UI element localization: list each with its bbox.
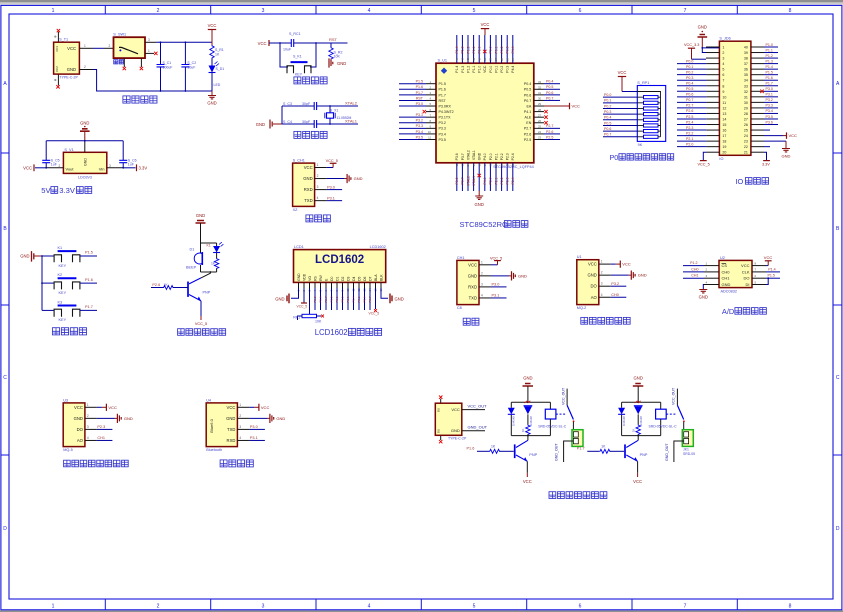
net P1.6 key <box>80 278 97 283</box>
svg-text:Vout: Vout <box>66 167 75 172</box>
pin 3 net P3.0 of S_CH1 <box>315 185 343 190</box>
svg-text:19: 19 <box>494 163 498 167</box>
caption 蓝牙模块 <box>220 460 253 467</box>
svg-text:S_X1: S_X1 <box>330 109 338 113</box>
svg-text:3: 3 <box>262 604 265 610</box>
svg-text:P0.1: P0.1 <box>604 99 611 103</box>
caption 晶振电路 <box>294 131 327 138</box>
buzzer D1 BEEP <box>186 243 202 272</box>
svg-text:11: 11 <box>428 136 431 140</box>
svg-text:P2.4: P2.4 <box>511 177 515 184</box>
svg-text:10uF: 10uF <box>283 48 292 52</box>
svg-text:P3.1: P3.1 <box>250 436 258 440</box>
caption LCD1602显示模块 <box>315 328 382 337</box>
svg-text:VCC: VCC <box>622 262 631 267</box>
net P0.1 lcd <box>335 288 339 310</box>
svg-text:P0.6: P0.6 <box>546 91 553 95</box>
svg-text:1: 1 <box>722 46 724 50</box>
svg-text:P1.3: P1.3 <box>461 66 465 73</box>
svg-text:15: 15 <box>472 163 476 167</box>
svg-text:P2.5: P2.5 <box>524 138 531 142</box>
svg-text:1K: 1K <box>215 53 220 57</box>
svg-text:P2.7: P2.7 <box>324 296 328 302</box>
svg-text:S_SW1: S_SW1 <box>113 32 126 36</box>
net P1.5 key <box>80 251 97 256</box>
svg-text:27: 27 <box>744 117 748 121</box>
svg-text:LCD1602: LCD1602 <box>315 254 364 266</box>
MCU bottom pin 15 <box>472 163 476 191</box>
svg-text:38: 38 <box>744 57 748 61</box>
net P0.3 pullup <box>603 110 637 114</box>
svg-text:K1: K1 <box>207 243 211 247</box>
svg-text:P0.3: P0.3 <box>506 46 510 53</box>
svg-text:P3.6: P3.6 <box>455 177 459 184</box>
svg-text:P1.6: P1.6 <box>416 85 423 89</box>
svg-text:LDO3V3: LDO3V3 <box>78 176 92 180</box>
svg-text:CS: CS <box>722 263 728 268</box>
svg-text:23: 23 <box>538 136 542 140</box>
svg-text:P0.0: P0.0 <box>330 296 334 302</box>
svg-text:GND: GND <box>20 253 29 258</box>
svg-text:P1.7: P1.7 <box>766 82 773 86</box>
svg-text:P1.5: P1.5 <box>85 251 93 255</box>
svg-text:2: 2 <box>59 164 61 168</box>
svg-text:DO: DO <box>591 284 598 289</box>
svg-text:MQ-2: MQ-2 <box>577 306 587 310</box>
power VCC_3.3 io <box>684 43 719 59</box>
svg-text:8: 8 <box>789 8 792 14</box>
caption 复位电路 <box>294 77 327 84</box>
transistor PNP alarm <box>188 272 211 301</box>
svg-text:23: 23 <box>744 140 748 144</box>
svg-text:DI: DI <box>746 282 750 287</box>
svg-text:VCC: VCC <box>451 407 460 412</box>
svg-text:P0.2: P0.2 <box>686 70 693 74</box>
svg-text:D3: D3 <box>346 276 350 280</box>
power GND ldo <box>80 121 90 141</box>
svg-text:29: 29 <box>538 102 542 106</box>
caption 下载口 <box>306 215 330 222</box>
svg-text:3: 3 <box>148 38 150 42</box>
MCU right pin 30 <box>534 96 560 100</box>
MCU bottom pin 17 <box>483 163 487 191</box>
svg-text:P0.5: P0.5 <box>604 121 611 125</box>
MCU right pin 27 <box>534 113 548 119</box>
svg-text:AO: AO <box>77 438 84 443</box>
svg-text:VCC_5: VCC_5 <box>297 304 308 308</box>
svg-text:D: D <box>3 526 7 532</box>
connector S_T1 TYPE-C-2P <box>54 29 80 89</box>
pin 2 GND of U3 <box>85 414 133 423</box>
net P0.1 io <box>677 65 719 69</box>
svg-text:4: 4 <box>601 293 603 297</box>
svg-text:U2: U2 <box>720 256 725 260</box>
svg-text:7: 7 <box>684 604 687 610</box>
net P2.7 io <box>677 104 719 108</box>
svg-text:S_RP1: S_RP1 <box>637 81 649 85</box>
svg-text:1: 1 <box>601 260 603 264</box>
svg-text:P0.6: P0.6 <box>686 93 693 97</box>
net P1.7 key <box>80 305 97 310</box>
net P0.0 io <box>677 59 719 63</box>
svg-text:5: 5 <box>722 68 724 72</box>
pin 3 net P3.0 of CH1 <box>479 282 507 287</box>
svg-text:P1.5: P1.5 <box>766 70 773 74</box>
svg-text:RP1: RP1 <box>293 316 300 320</box>
svg-text:16: 16 <box>477 163 481 167</box>
svg-text:VCC: VCC <box>468 262 477 267</box>
svg-text:GND: GND <box>124 416 133 421</box>
power GND reset <box>329 58 346 67</box>
net P0.6 pullup <box>603 127 637 131</box>
svg-text:30: 30 <box>538 97 542 101</box>
svg-text:GND: GND <box>276 416 285 421</box>
svg-text:CC2: CC2 <box>55 66 59 72</box>
caption 烟雾检测模块 <box>581 317 630 324</box>
power GND relay P1.6 <box>523 376 534 403</box>
svg-text:4: 4 <box>87 436 89 440</box>
svg-text:4: 4 <box>317 196 319 200</box>
io right pin 24 <box>751 132 797 138</box>
svg-text:CH1: CH1 <box>722 276 731 281</box>
svg-text:P3.0: P3.0 <box>416 102 423 106</box>
svg-text:CC1: CC1 <box>55 45 59 51</box>
io right pin 28 <box>751 109 778 113</box>
svg-text:CH1: CH1 <box>97 436 105 440</box>
power VCC relay emitter <box>633 461 642 484</box>
power 3.3V ldo out <box>107 164 148 171</box>
svg-text:SRD-05: SRD-05 <box>683 452 695 456</box>
svg-text:D4: D4 <box>352 276 356 280</box>
svg-text:JK1: JK1 <box>683 448 689 452</box>
MCU top pin 40 <box>477 35 481 63</box>
net P0.4 lcd <box>352 288 356 310</box>
svg-text:LCD1602: LCD1602 <box>315 328 348 337</box>
svg-text:P3.4: P3.4 <box>766 109 773 113</box>
wire key rail <box>41 255 43 310</box>
svg-text:D1: D1 <box>190 248 195 252</box>
relay switch contact <box>556 387 575 422</box>
svg-text:P3.5: P3.5 <box>416 135 423 139</box>
svg-text:P0.0: P0.0 <box>604 93 611 97</box>
svg-text:P2.7: P2.7 <box>546 124 553 128</box>
svg-text:SRD-05VDC-SL-C: SRD-05VDC-SL-C <box>649 424 678 428</box>
svg-text:P3.1TX: P3.1TX <box>439 116 452 120</box>
svg-text:29: 29 <box>744 106 748 110</box>
svg-text:P3.3: P3.3 <box>766 104 773 108</box>
MCU bottom pin 14 <box>466 163 470 191</box>
svg-text:P2.3: P2.3 <box>506 177 510 184</box>
svg-text:S_R1: S_R1 <box>215 48 224 52</box>
io right pin 37 <box>751 59 778 63</box>
svg-text:P0.3: P0.3 <box>604 110 611 114</box>
svg-text:VCC_5: VCC_5 <box>490 256 502 260</box>
svg-text:BLK: BLK <box>379 274 383 281</box>
svg-text:GND: GND <box>782 154 791 159</box>
svg-text:4: 4 <box>481 293 483 297</box>
svg-text:25: 25 <box>744 129 748 133</box>
svg-text:3: 3 <box>239 425 241 429</box>
svg-text:GND: GND <box>634 376 643 381</box>
net P1.4 adc clk pin7 <box>752 267 780 272</box>
svg-text:S_CH1: S_CH1 <box>293 159 305 163</box>
svg-text:39: 39 <box>744 51 748 55</box>
svg-text:P0.6: P0.6 <box>604 127 611 131</box>
svg-text:2: 2 <box>722 51 724 55</box>
svg-text:34: 34 <box>511 57 515 61</box>
svg-text:P2.2: P2.2 <box>686 131 693 135</box>
MCU bottom pin 21 <box>505 163 509 191</box>
svg-text:P4.3INT2: P4.3INT2 <box>439 110 454 114</box>
svg-text:P4.0: P4.0 <box>483 153 487 160</box>
io right pin 31 <box>751 93 778 97</box>
svg-text:S_T1: S_T1 <box>59 38 68 42</box>
svg-text:GND: GND <box>468 273 477 278</box>
svg-text:P2.6: P2.6 <box>546 130 553 134</box>
svg-text:P0.6: P0.6 <box>524 93 531 97</box>
svg-text:P0.3: P0.3 <box>346 296 350 302</box>
svg-text:P4.1: P4.1 <box>524 110 531 114</box>
svg-text:P1.2: P1.2 <box>690 261 697 265</box>
svg-text:9K: 9K <box>638 143 643 147</box>
svg-text:GND: GND <box>638 273 647 278</box>
diode 1N4148 flyback <box>618 402 626 435</box>
relay switch contact <box>666 387 685 422</box>
svg-text:10K: 10K <box>315 320 322 324</box>
svg-text:Blue6.0: Blue6.0 <box>209 418 214 432</box>
svg-text:1K: 1K <box>601 445 606 449</box>
svg-text:P4.4: P4.4 <box>511 46 515 53</box>
svg-text:GND: GND <box>207 101 216 106</box>
io right pin 33 <box>751 82 778 86</box>
svg-text:P2.6: P2.6 <box>152 283 160 287</box>
svg-text:24: 24 <box>538 130 542 134</box>
svg-text:P0.0: P0.0 <box>489 66 493 73</box>
svg-text:P1.4: P1.4 <box>455 66 459 73</box>
svg-text:CH0: CH0 <box>691 267 698 271</box>
svg-text:P3.2: P3.2 <box>439 121 446 125</box>
net P0.6 lcd <box>363 288 367 310</box>
svg-text:MQ-5: MQ-5 <box>63 448 72 452</box>
svg-text:30pF: 30pF <box>302 120 311 124</box>
power VCC_5 io pin20 <box>698 152 720 166</box>
svg-text:GND: GND <box>226 416 235 421</box>
svg-text:P0.1: P0.1 <box>335 296 339 302</box>
power VCC relay emitter <box>523 461 532 484</box>
pin 1 VCC of S_CH1 <box>315 159 338 168</box>
svg-text:P2.4: P2.4 <box>686 120 693 124</box>
io right pin 23 <box>751 141 791 158</box>
svg-text:XTAL1: XTAL1 <box>472 176 476 186</box>
svg-text:GND: GND <box>303 176 312 181</box>
svg-text:S_C4: S_C4 <box>283 120 292 124</box>
MCU left pin 10 <box>399 130 436 134</box>
svg-text:P2.2: P2.2 <box>500 177 504 184</box>
svg-text:P0.2: P0.2 <box>604 104 611 108</box>
power GND lcd left <box>275 288 298 303</box>
svg-text:S_RC1: S_RC1 <box>289 32 301 36</box>
svg-text:VCC: VCC <box>67 46 76 51</box>
svg-text:CLK: CLK <box>742 269 750 274</box>
svg-text:P2.0: P2.0 <box>489 153 493 160</box>
svg-text:22: 22 <box>744 145 748 149</box>
svg-text:44: 44 <box>455 57 459 61</box>
svg-text:VCC: VCC <box>208 23 217 28</box>
svg-text:10: 10 <box>428 130 432 134</box>
svg-text:25: 25 <box>538 125 542 129</box>
svg-text:BLA: BLA <box>374 274 378 281</box>
MCU top pin 35 <box>505 35 509 63</box>
LCD pin 12 <box>357 282 361 291</box>
power GND <box>207 91 216 106</box>
LCD pin 16 <box>379 282 383 291</box>
svg-text:P0.7: P0.7 <box>524 99 531 103</box>
svg-text:6: 6 <box>579 8 582 14</box>
capacitor S_C6 1uF <box>119 141 136 168</box>
diode LED relay <box>524 401 533 426</box>
svg-text:VO: VO <box>308 276 312 281</box>
svg-text:P0.1: P0.1 <box>494 46 498 53</box>
svg-text:8: 8 <box>789 604 792 610</box>
svg-text:RST: RST <box>329 37 338 42</box>
svg-text:GND: GND <box>337 61 346 66</box>
MCU top pin 36 <box>500 35 504 63</box>
caption 按键电路 <box>52 328 86 335</box>
svg-text:VCC_OUT: VCC_OUT <box>561 387 565 405</box>
MCU right pin 26 <box>534 119 548 125</box>
svg-text:28: 28 <box>744 112 748 116</box>
wire T1 gnd rail <box>79 65 212 92</box>
crystal S_X1 11.0592M <box>325 105 352 125</box>
svg-text:DO: DO <box>744 276 750 281</box>
svg-text:P1.7: P1.7 <box>439 93 446 97</box>
svg-text:C8: C8 <box>457 306 462 310</box>
svg-text:Bluetooth: Bluetooth <box>206 448 222 452</box>
MCU bottom pin 16 <box>477 163 481 191</box>
svg-text:P3.0: P3.0 <box>492 283 500 287</box>
svg-text:38: 38 <box>489 57 493 61</box>
wire T1 pin1 to SW1 <box>79 44 113 49</box>
wire relay gnd_out <box>555 441 574 462</box>
svg-text:GND: GND <box>74 416 83 421</box>
net P0.2 lcd <box>341 288 345 310</box>
MCU left pin 3 <box>399 91 436 95</box>
caption 电源电路 <box>123 96 157 103</box>
svg-text:TXD: TXD <box>227 427 235 432</box>
MCU left pin 11 <box>399 135 436 139</box>
svg-text:P1.7: P1.7 <box>85 305 93 309</box>
svg-text:3.3V: 3.3V <box>762 162 770 166</box>
svg-text:VCC: VCC <box>523 479 532 484</box>
svg-text:P3.7: P3.7 <box>461 177 465 184</box>
pin 3 net P3.0 of U4 <box>237 425 265 430</box>
svg-text:34: 34 <box>744 79 748 83</box>
power VCC MCU top <box>481 22 490 35</box>
net P0.4 pullup <box>603 116 637 120</box>
ADC U2 ADC0832 <box>719 256 752 294</box>
net P2.5 io <box>677 115 719 119</box>
MCU top pin 41 <box>472 35 476 63</box>
svg-text:14: 14 <box>722 117 726 121</box>
module U1 MQ-2 <box>577 255 599 310</box>
svg-text:CH1: CH1 <box>457 256 465 260</box>
svg-text:12: 12 <box>455 163 459 167</box>
io right pin 32 <box>751 87 778 93</box>
svg-text:VCC: VCC <box>483 65 487 73</box>
pin 4 net CH0 of U1 <box>599 293 627 298</box>
pin 2 GND of S_CH1 <box>315 174 363 183</box>
svg-text:P3.1: P3.1 <box>766 93 773 97</box>
svg-text:4: 4 <box>239 436 241 440</box>
svg-text:DO: DO <box>77 427 84 432</box>
svg-text:P2.2: P2.2 <box>500 153 504 160</box>
svg-text:18: 18 <box>722 140 726 144</box>
module U3 MQ-5 <box>63 398 85 452</box>
net P0.7 pullup <box>603 133 637 137</box>
svg-text:3: 3 <box>317 185 319 189</box>
svg-text:RS: RS <box>313 275 317 280</box>
net GND_OUT source <box>462 424 488 430</box>
power VCC reset <box>258 40 280 46</box>
LED S_D1 <box>209 62 225 92</box>
svg-text:PNP: PNP <box>203 291 211 295</box>
LCD pin 14 <box>368 282 372 291</box>
resistor S_R1 1K <box>210 45 224 66</box>
svg-text:U1: U1 <box>577 255 582 259</box>
svg-text:18: 18 <box>489 163 493 167</box>
resistor 1K base net P1.7 <box>577 445 624 454</box>
svg-text:7: 7 <box>722 79 724 83</box>
svg-text:P1.1: P1.1 <box>766 48 773 52</box>
net P0.6 io <box>677 93 719 97</box>
io right pin 22 <box>751 146 770 148</box>
svg-text:20: 20 <box>500 163 504 167</box>
svg-text:36: 36 <box>744 68 748 72</box>
LCD LCD1 LCD1602 <box>294 245 386 282</box>
svg-text:26: 26 <box>538 119 542 123</box>
svg-text:1: 1 <box>481 260 483 264</box>
svg-text:31: 31 <box>744 95 748 99</box>
svg-text:37: 37 <box>744 62 748 66</box>
MCU right pin 23 <box>534 135 560 139</box>
svg-text:3: 3 <box>87 425 89 429</box>
svg-text:P0: P0 <box>610 153 619 162</box>
svg-text:36: 36 <box>500 57 504 61</box>
svg-text:VCC_5: VCC_5 <box>195 322 207 326</box>
LCD pin 11 <box>352 282 356 291</box>
svg-text:33: 33 <box>538 80 542 84</box>
svg-text:P1.2: P1.2 <box>466 66 470 73</box>
svg-text:VCC: VCC <box>304 165 313 170</box>
svg-text:3.3V: 3.3V <box>139 165 148 170</box>
svg-text:P3.2: P3.2 <box>416 119 423 123</box>
svg-text:1N4148: 1N4148 <box>622 416 626 426</box>
svg-text:3: 3 <box>262 8 265 14</box>
svg-text:P0.5: P0.5 <box>686 87 693 91</box>
svg-text:43: 43 <box>461 57 465 61</box>
svg-text:P3.2: P3.2 <box>611 282 619 286</box>
power VCC_5 lcd pin2 <box>297 288 308 308</box>
LCD pin 9 <box>341 282 345 291</box>
io right pin 25 <box>751 129 770 131</box>
svg-text:1N4148: 1N4148 <box>639 416 643 426</box>
svg-text:D2: D2 <box>341 276 345 280</box>
svg-text:P0.4: P0.4 <box>546 80 553 84</box>
net P0.0 lcd <box>330 288 334 310</box>
transistor PNP relay P1.7 <box>625 440 648 461</box>
net P0.5 pullup <box>603 121 637 125</box>
connector relay output <box>572 430 583 447</box>
